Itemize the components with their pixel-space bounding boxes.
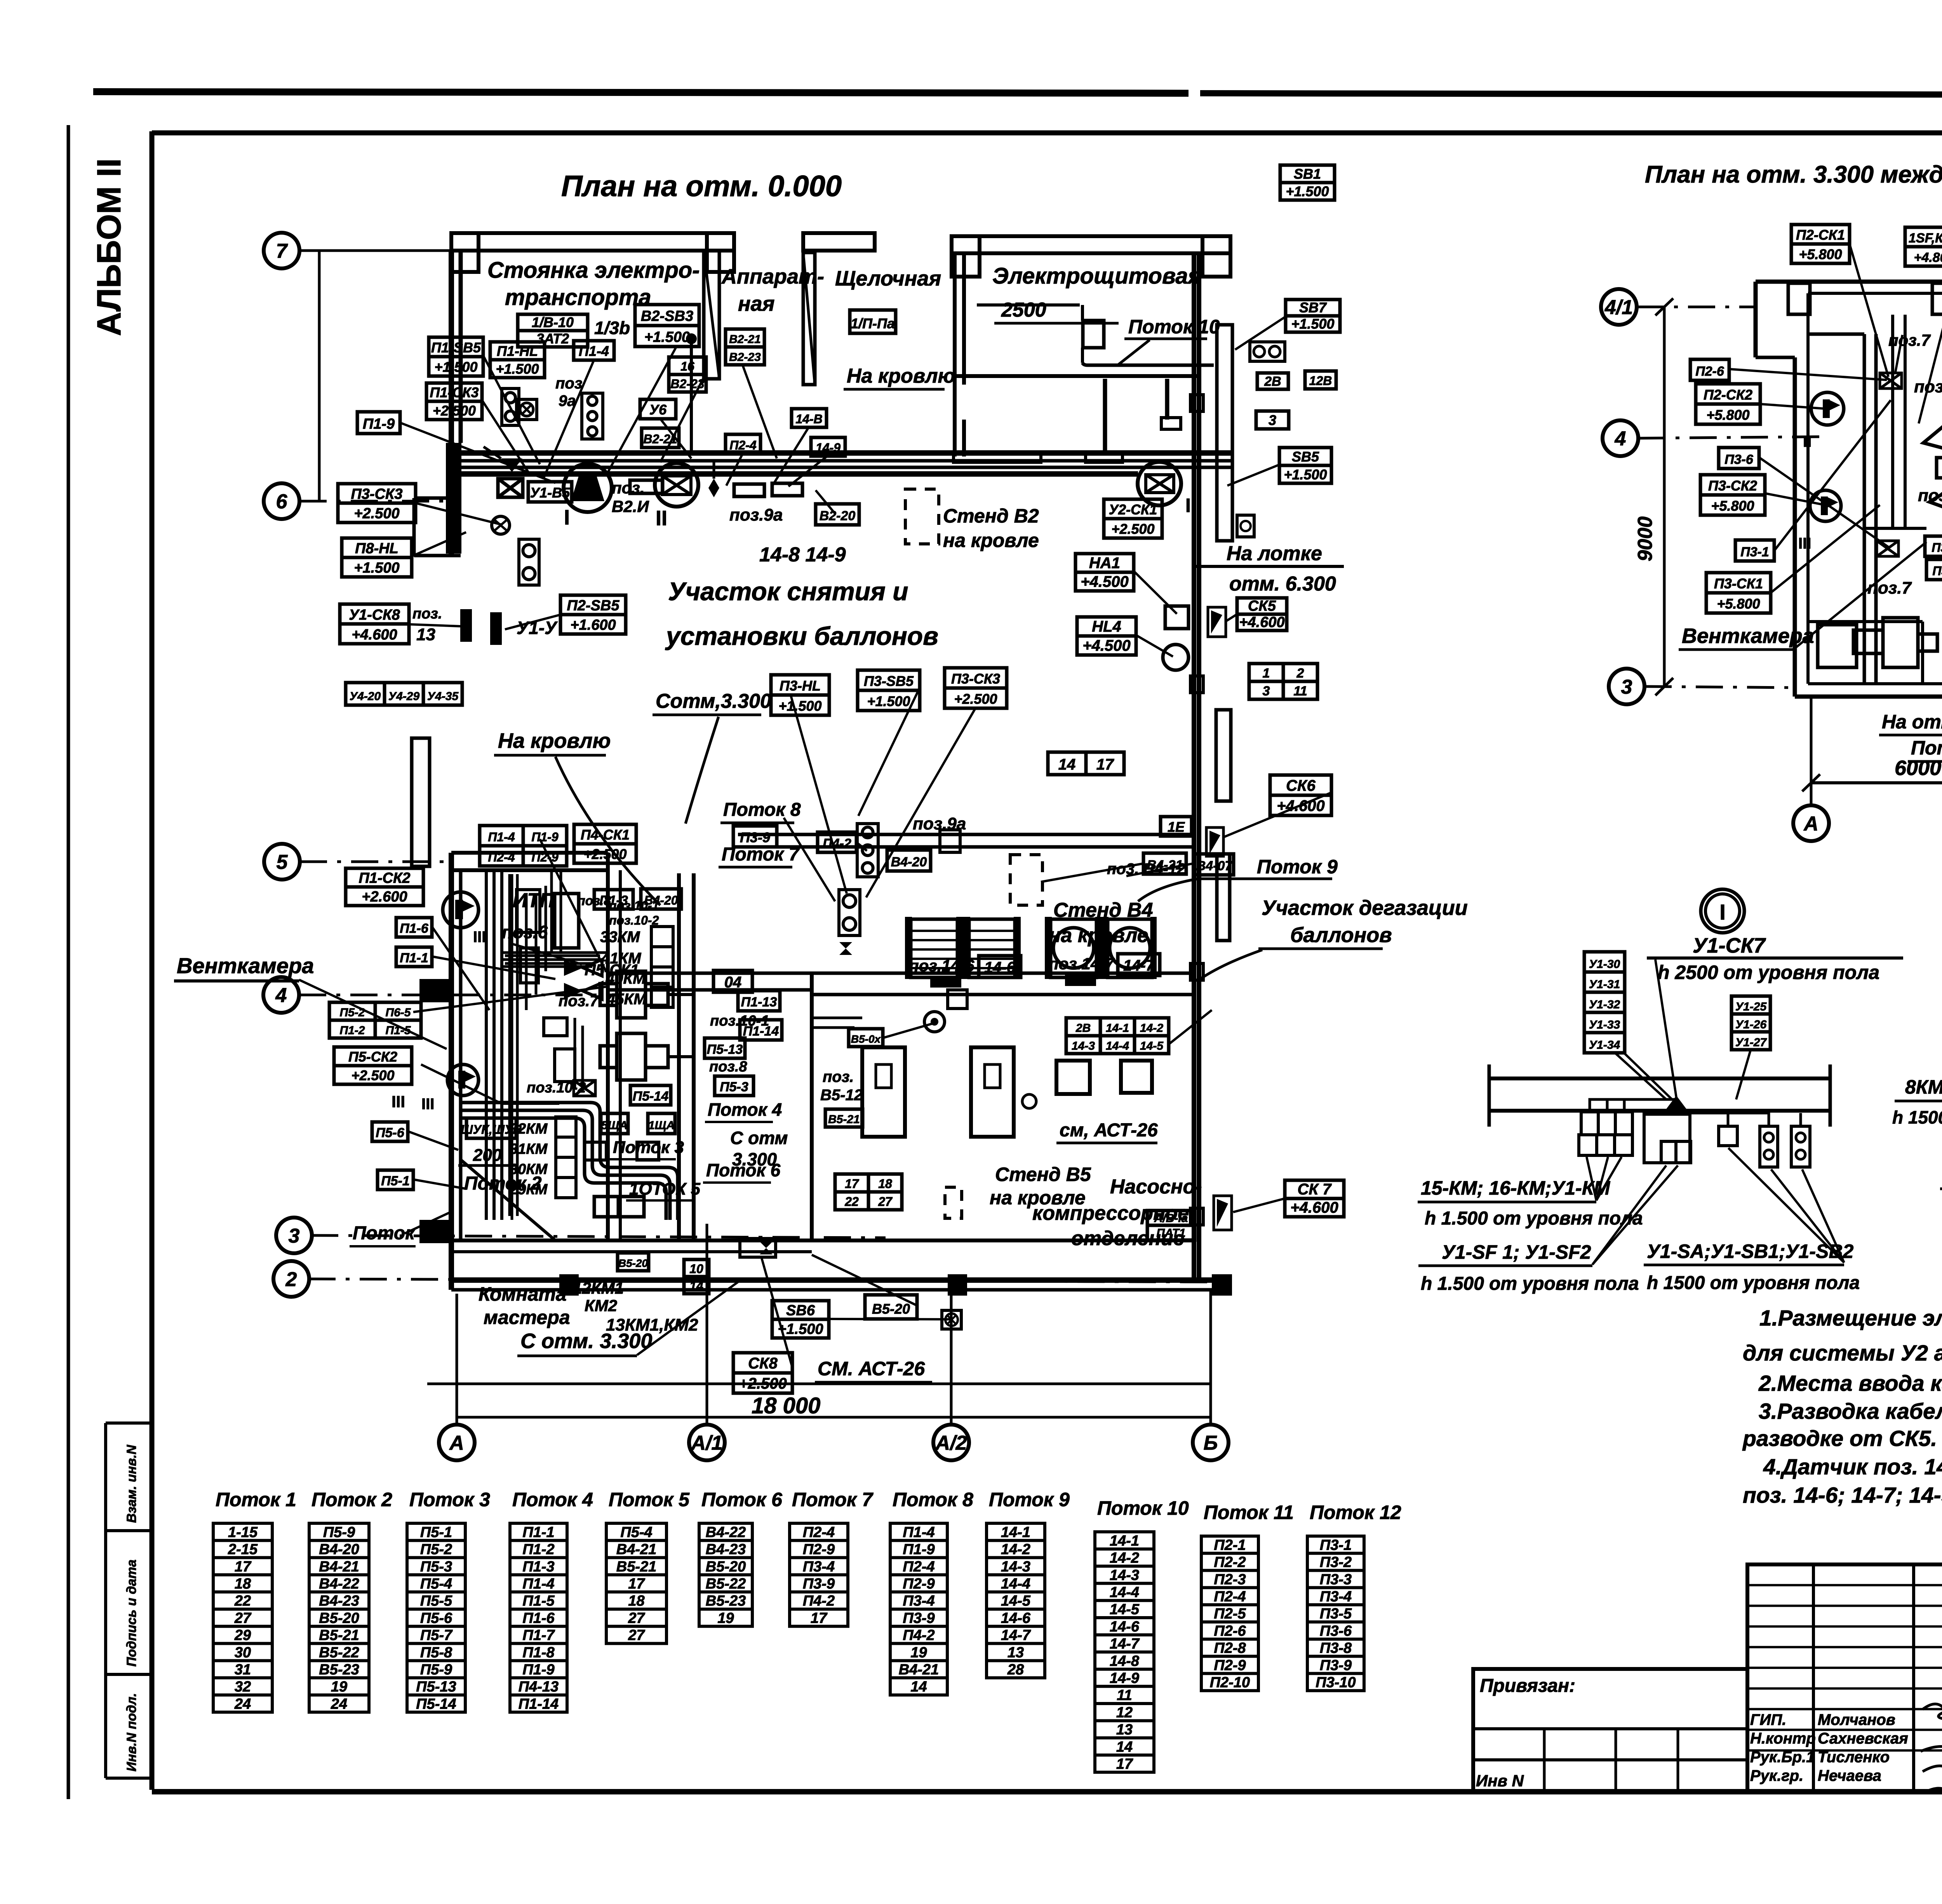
svg-text:П3-1: П3-1 <box>1320 1537 1352 1553</box>
svg-text:2500: 2500 <box>1001 299 1046 321</box>
label table П1-4 П1-9 П2-4 П2-9 <box>480 826 567 866</box>
text С отм.3.300 <box>653 690 771 824</box>
svg-text:Стенд В2: Стенд В2 <box>943 505 1039 527</box>
svg-text:В2-20: В2-20 <box>820 509 856 523</box>
svg-text:см, АСТ-26: см, АСТ-26 <box>1060 1120 1158 1141</box>
svg-text:13: 13 <box>1116 1722 1133 1738</box>
svg-text:30: 30 <box>235 1644 251 1661</box>
label box П2-СК1 +5.800 <box>1791 225 1850 263</box>
label box П3-9 <box>733 826 777 847</box>
axis circle 6 <box>264 483 299 519</box>
text см АСТ-26 mid <box>1056 1120 1158 1143</box>
dimension line 18000 lower <box>457 1416 1211 1419</box>
svg-text:I: I <box>1185 495 1191 516</box>
svg-text:П1-9: П1-9 <box>903 1542 934 1558</box>
svg-text:СК5: СК5 <box>1248 598 1276 614</box>
label box СК7 +4.600 <box>1285 1180 1344 1217</box>
svg-text:П5-9: П5-9 <box>323 1524 355 1540</box>
cable line in Электрощитовая <box>977 305 1214 365</box>
flow table Поток 10 <box>1095 1532 1154 1772</box>
svg-text:22: 22 <box>844 1195 859 1209</box>
svg-text:16: 16 <box>680 359 694 373</box>
detail I label stack У1-25..27 <box>1731 996 1770 1050</box>
svg-text:I: I <box>1719 900 1726 924</box>
svg-text:У1-34: У1-34 <box>1589 1039 1620 1052</box>
label box 14-9 <box>811 437 845 456</box>
svg-text:П5-9: П5-9 <box>420 1662 452 1678</box>
svg-text:Аппарат-: Аппарат- <box>721 265 824 288</box>
junction circle on wall right <box>1138 462 1181 505</box>
svg-text:СК8: СК8 <box>748 1355 778 1372</box>
label box SВ5 +1.500 <box>1279 448 1331 483</box>
flow table Поток 2 <box>309 1523 369 1712</box>
svg-text:П1-6: П1-6 <box>522 1610 555 1626</box>
svg-text:Поток 2: Поток 2 <box>311 1489 392 1510</box>
svg-text:+2.500: +2.500 <box>1111 521 1154 537</box>
svg-text:П2-6: П2-6 <box>1695 364 1724 379</box>
vertical dimension line 9000 <box>1655 298 1673 695</box>
svg-text:+1.500: +1.500 <box>778 698 821 714</box>
svg-text:П2-9: П2-9 <box>1214 1657 1246 1674</box>
svg-text:На лотке: На лотке <box>1227 542 1322 565</box>
svg-text:Взам. инв.N: Взам. инв.N <box>124 1444 139 1523</box>
svg-text:29: 29 <box>234 1627 251 1644</box>
svg-text:поз.14-6: поз.14-6 <box>909 956 974 975</box>
text 12КМ1 КМ2 <box>573 1279 624 1315</box>
text Участок дегазации баллонов <box>1200 896 1468 979</box>
traffic light symbol top2 <box>582 393 603 439</box>
detail I label stack У1-30..34 <box>1584 952 1625 1053</box>
svg-text:поз.7: поз.7 <box>559 993 599 1010</box>
svg-text:Поток 10: Поток 10 <box>1097 1497 1189 1519</box>
svg-text:П1-14: П1-14 <box>519 1696 559 1712</box>
fan circle unit 1 <box>1045 917 1102 979</box>
flow table Поток 5 <box>606 1523 666 1644</box>
svg-text:Поток 5: Поток 5 <box>609 1489 690 1510</box>
svg-text:12В: 12В <box>1309 374 1332 388</box>
envelope symbol right plan 2 <box>1877 541 1898 556</box>
building right wall <box>1194 253 1199 1282</box>
flag circle symbol III right plan <box>1810 490 1841 521</box>
svg-text:С отм. 3.300: С отм. 3.300 <box>520 1329 652 1353</box>
svg-text:24: 24 <box>234 1696 251 1712</box>
label box П3-SВ5 +1.500 <box>858 670 920 711</box>
svg-text:У4-35: У4-35 <box>427 690 459 703</box>
fan circle unit 2 <box>1102 917 1157 979</box>
label box 1/П-Па <box>850 310 896 333</box>
svg-text:11: 11 <box>1117 1687 1132 1704</box>
svg-text:Поток 2: Поток 2 <box>464 1173 542 1194</box>
svg-text:14-4: 14-4 <box>1106 1040 1129 1052</box>
ИТП pipe lines <box>502 870 608 967</box>
svg-text:11: 11 <box>1293 684 1307 699</box>
cable tray box 2 <box>734 484 764 496</box>
building outer walls right plan <box>1756 282 1942 697</box>
svg-text:П5-6: П5-6 <box>420 1610 452 1626</box>
svg-text:Комната: Комната <box>479 1283 567 1305</box>
axis drop line А/2 <box>950 1294 953 1424</box>
signature squiggles <box>1921 1704 1942 1798</box>
axis circle 4/1 <box>1601 289 1637 325</box>
svg-text:27: 27 <box>234 1610 252 1626</box>
label box П3-5 <box>1926 559 1942 580</box>
text Поток 7 <box>719 844 800 867</box>
svg-text:+2.500: +2.500 <box>583 846 626 862</box>
svg-text:Поток 9: Поток 9 <box>989 1489 1070 1510</box>
svg-text:П2-9: П2-9 <box>531 850 558 864</box>
svg-text:18: 18 <box>878 1177 892 1191</box>
column T in Электрощитовая 1 <box>1086 379 1122 462</box>
svg-text:13: 13 <box>416 625 435 644</box>
svg-text:У6: У6 <box>649 402 667 418</box>
svg-text:П4-2: П4-2 <box>803 1593 835 1609</box>
svg-text:Инв.N подл.: Инв.N подл. <box>124 1693 139 1772</box>
svg-text:В5-20: В5-20 <box>706 1559 746 1575</box>
label box П2-4 <box>726 434 760 454</box>
svg-text:на кровле: на кровле <box>1049 924 1148 947</box>
valve bowtie 2 <box>564 983 602 999</box>
label box П5-1 <box>378 1170 413 1190</box>
svg-text:У1-В5: У1-В5 <box>530 485 570 501</box>
svg-text:+4.600: +4.600 <box>1239 614 1284 631</box>
axis circle А right plan <box>1793 805 1829 841</box>
svg-text:12: 12 <box>1116 1704 1133 1721</box>
svg-text:П4-13: П4-13 <box>519 1679 559 1695</box>
flow table Поток 11 <box>1201 1536 1258 1691</box>
svg-text:ПАТ1: ПАТ1 <box>1156 1227 1185 1240</box>
svg-text:33КМ: 33КМ <box>600 928 640 946</box>
wall between Щелочная and Электрощитовая <box>955 253 964 456</box>
svg-text:3: 3 <box>1263 684 1270 699</box>
svg-text:Нечаева: Нечаева <box>1818 1767 1881 1784</box>
axis 4 line right plan <box>1638 437 1825 438</box>
svg-text:П2-3: П2-3 <box>1214 1571 1246 1588</box>
valve bowtie 1 <box>564 960 602 976</box>
svg-text:14-9: 14-9 <box>1110 1670 1139 1686</box>
text На кровлю mid <box>494 729 660 905</box>
svg-text:14-3: 14-3 <box>1072 1040 1095 1052</box>
svg-text:разводке от СК5.: разводке от СК5. <box>1742 1426 1937 1451</box>
interior wall x2090 <box>810 973 814 1241</box>
svg-text:4/1: 4/1 <box>1604 296 1633 319</box>
svg-text:П2-1: П2-1 <box>1214 1537 1246 1553</box>
svg-text:П5-14: П5-14 <box>416 1696 456 1712</box>
svg-text:В5-21: В5-21 <box>319 1627 359 1644</box>
svg-text:П3-4: П3-4 <box>803 1559 835 1575</box>
svg-text:Электрощитовая: Электрощитовая <box>992 263 1201 289</box>
svg-text:АЛЬБОМ II: АЛЬБОМ II <box>90 159 128 336</box>
svg-text:14-6: 14-6 <box>1110 1618 1140 1635</box>
svg-text:В4-21: В4-21 <box>899 1662 939 1678</box>
svg-text:П1-4: П1-4 <box>579 343 609 359</box>
svg-text:+2.500: +2.500 <box>351 1067 394 1083</box>
text Венткамера left <box>174 953 447 1049</box>
svg-text:+1.500: +1.500 <box>354 560 399 576</box>
label box СК6 +4.600 <box>1270 775 1331 815</box>
label box У1-В5 <box>528 482 572 502</box>
svg-text:4.Датчик поз. 14-В установит: 4.Датчик поз. 14-В установить на стене н… <box>1763 1455 1942 1479</box>
text С отм. 3.300 bottom <box>517 1282 738 1356</box>
svg-text:П1-9: П1-9 <box>363 416 395 432</box>
label box 5ЩА dark <box>601 1113 628 1134</box>
svg-text:В5-0х: В5-0х <box>851 1033 881 1045</box>
svg-text:14-1: 14-1 <box>1001 1524 1030 1540</box>
bottom wall bowtie symbol <box>740 1239 776 1257</box>
svg-text:17: 17 <box>628 1576 645 1592</box>
ИТП machinery vertical tank <box>555 894 579 948</box>
label box В5-20 dark bottom <box>618 1253 649 1271</box>
svg-text:В4-22: В4-22 <box>706 1524 746 1540</box>
label box П1-SВ5 +1.500 <box>429 337 483 376</box>
circle cross symbol left wall <box>492 516 510 534</box>
svg-text:+5.800: +5.800 <box>1799 246 1842 262</box>
svg-text:П5-1: П5-1 <box>381 1174 410 1188</box>
svg-text:Венткамера: Венткамера <box>1682 624 1814 648</box>
flag circle symbol II right plan <box>1811 392 1844 425</box>
device НА1 rect <box>1165 606 1189 629</box>
svg-text:А/2: А/2 <box>935 1432 967 1455</box>
detail II caption 8КМ 9КМ <box>1892 1076 1942 1140</box>
svg-text:отм. 6.300: отм. 6.300 <box>1229 573 1336 595</box>
svg-text:+2.500: +2.500 <box>739 1375 787 1392</box>
svg-text:1: 1 <box>1263 666 1270 681</box>
svg-text:установки баллонов: установки баллонов <box>665 622 938 650</box>
text поз.8 и поз.10-1 10-2 <box>577 894 659 927</box>
label box 2В <box>1257 373 1288 389</box>
svg-text:ная: ная <box>738 292 774 315</box>
ШУК ШУВ cabinet <box>458 1118 522 1165</box>
envelope symbol ИТП <box>574 1080 595 1096</box>
right riser channel middle <box>1216 710 1231 801</box>
text Поток 9 <box>1138 856 1338 901</box>
svg-text:Поток 6: Поток 6 <box>1911 737 1942 759</box>
svg-text:2В: 2В <box>1264 374 1281 389</box>
svg-text:+1.600: +1.600 <box>570 617 616 633</box>
svg-text:Поток 12: Поток 12 <box>1310 1502 1401 1523</box>
wall right of Стоянка <box>704 251 719 379</box>
svg-text:Стенд В4: Стенд В4 <box>1053 899 1153 922</box>
label box 1В right plan <box>1937 458 1942 478</box>
П3-9 wall bowtie <box>827 942 852 955</box>
svg-text:П1-6: П1-6 <box>400 921 429 936</box>
svg-text:2: 2 <box>1296 666 1304 681</box>
building bottom wall <box>451 1280 1232 1290</box>
svg-text:П3-HL: П3-HL <box>780 678 821 694</box>
svg-text:П3-5: П3-5 <box>1320 1606 1352 1622</box>
label box П3-СК3 +2.500 <box>945 668 1007 708</box>
svg-text:Поток 7: Поток 7 <box>722 844 800 865</box>
svg-text:I: I <box>564 506 570 529</box>
text Стенд В5 на кровле <box>990 1164 1091 1209</box>
label box П1-СК3 +2.500 <box>426 383 482 420</box>
Насосная greeking <box>812 1018 1036 1108</box>
svg-text:В4-21: В4-21 <box>616 1542 657 1558</box>
dot circle symbol <box>924 1012 945 1032</box>
axis vertical line near 7 <box>318 251 321 501</box>
svg-text:14: 14 <box>910 1679 927 1695</box>
svg-text:П3-2: П3-2 <box>1320 1554 1352 1571</box>
detail I right small box <box>1690 1113 1737 1146</box>
label box П3-СК3 +2.500 left <box>338 484 416 523</box>
traffic light below I <box>519 539 539 585</box>
texts 32КМ 31КМ 30КМ 29КМ <box>509 1121 548 1198</box>
label strip У4-20 У4-29 У4-35 <box>346 683 462 705</box>
svg-text:14-2: 14-2 <box>1001 1542 1030 1558</box>
junction box I circle <box>564 464 612 512</box>
svg-text:П3-10: П3-10 <box>1316 1674 1356 1691</box>
svg-text:поз.: поз. <box>612 479 644 497</box>
title block centre grid <box>1747 1564 1942 1792</box>
svg-text:П3-СК3: П3-СК3 <box>951 671 1000 687</box>
text С отм 3.300 mid <box>730 1128 788 1169</box>
svg-text:П2-2: П2-2 <box>1214 1554 1246 1571</box>
svg-text:14-2: 14-2 <box>1110 1550 1139 1566</box>
boxed fan symbol bottom <box>942 1310 961 1329</box>
svg-text:ИТП: ИТП <box>513 889 555 912</box>
svg-text:Молчанов: Молчанов <box>1818 1711 1895 1728</box>
right riser channel upper <box>1217 325 1232 541</box>
svg-text:3: 3 <box>289 1225 300 1247</box>
svg-text:Н.контр: Н.контр <box>1750 1730 1816 1747</box>
svg-text:А: А <box>449 1432 464 1455</box>
svg-text:14-5: 14-5 <box>1001 1593 1031 1609</box>
text Поток 10 <box>1119 316 1220 364</box>
svg-text:9000: 9000 <box>1634 516 1657 561</box>
svg-text:Сахневская: Сахневская <box>1818 1730 1908 1747</box>
label box СК5 +4.600 <box>1237 598 1287 631</box>
svg-text:У1-32: У1-32 <box>1589 998 1620 1011</box>
svg-text:28: 28 <box>1007 1662 1024 1678</box>
right riser channel lower <box>1217 854 1230 941</box>
svg-text:В4-22: В4-22 <box>319 1576 359 1592</box>
wall at axis 5 <box>451 853 608 870</box>
hall label Участок снятия <box>665 577 938 650</box>
left wall pilaster at axis 3 <box>419 1220 451 1243</box>
vent chamber wall <box>1808 334 1876 684</box>
svg-text:Привязан:: Привязан: <box>1480 1676 1575 1696</box>
detail marker I <box>1701 889 1744 933</box>
svg-text:Поток 4: Поток 4 <box>512 1489 593 1510</box>
dashed stand В5 <box>945 1187 962 1218</box>
svg-text:+2.500: +2.500 <box>433 403 476 419</box>
svg-text:1Е: 1Е <box>1168 819 1185 835</box>
svg-text:В2-23: В2-23 <box>729 351 761 364</box>
svg-text:III: III <box>421 1096 434 1113</box>
svg-text:П5-СК2: П5-СК2 <box>348 1049 397 1064</box>
junction box II circle <box>655 463 698 507</box>
svg-text:4: 4 <box>1615 428 1626 450</box>
svg-text:3АТ2: 3АТ2 <box>536 331 569 347</box>
text поз 9а <box>555 375 582 409</box>
label box П5-6 <box>372 1122 408 1141</box>
flow table Поток 6 <box>699 1523 752 1626</box>
svg-text:+4.600: +4.600 <box>1290 1199 1338 1216</box>
svg-text:45КМ: 45КМ <box>606 991 647 1008</box>
detail II caption 20-КМ 21-КМ В2-К1К2К3 <box>1940 1158 1942 1215</box>
text Поток 4 <box>705 1099 782 1122</box>
svg-text:14: 14 <box>1116 1739 1133 1755</box>
boxed cross symbol <box>517 399 537 420</box>
trunk boxes bottom <box>594 1197 644 1217</box>
pump cross unit 2 <box>600 1033 695 1080</box>
svg-text:+1.500: +1.500 <box>644 329 690 345</box>
svg-text:+1.500: +1.500 <box>778 1321 823 1337</box>
svg-text:СК 7: СК 7 <box>1298 1181 1332 1198</box>
svg-text:Инв N: Инв N <box>1476 1772 1524 1790</box>
svg-text:1ЩА: 1ЩА <box>648 1119 675 1132</box>
top step block <box>1788 283 1942 314</box>
text На отм.0,000 bottom right plan <box>1879 711 1942 735</box>
svg-text:+5.800: +5.800 <box>1711 498 1754 514</box>
axis 3 line <box>311 1235 886 1238</box>
svg-text:h 2500 от уровня пола: h 2500 от уровня пола <box>1658 962 1879 983</box>
svg-text:В2-21: В2-21 <box>729 333 761 346</box>
sensor поз.9а diamond <box>708 461 719 497</box>
drawing frame left border <box>150 131 155 1790</box>
equipment rect tall 2 <box>971 1047 1014 1137</box>
svg-text:Б: Б <box>1204 1432 1218 1455</box>
svg-text:У1-27: У1-27 <box>1735 1036 1767 1049</box>
svg-text:14-1: 14-1 <box>1106 1022 1129 1035</box>
svg-text:поз.9а: поз.9а <box>913 814 966 833</box>
bottom left room wall <box>1808 622 1923 684</box>
svg-text:+4.600: +4.600 <box>352 627 397 643</box>
traffic light symbol top1 <box>502 388 519 425</box>
svg-text:П1-3: П1-3 <box>522 1559 554 1575</box>
svg-text:Поток 1: Поток 1 <box>216 1489 296 1510</box>
svg-text:III: III <box>473 928 486 946</box>
svg-text:П2-4: П2-4 <box>803 1524 835 1540</box>
svg-text:П1-1: П1-1 <box>522 1524 554 1540</box>
svg-text:7: 7 <box>276 240 288 263</box>
svg-text:2.Места ввода кабелей в эле: 2.Места ввода кабелей в электрощитовую у… <box>1758 1371 1942 1396</box>
svg-text:4: 4 <box>275 984 287 1007</box>
svg-text:Поток 6: Поток 6 <box>701 1489 783 1510</box>
text Венткамера right plan <box>1679 624 1814 650</box>
label box В5-0х <box>849 1029 883 1047</box>
svg-text:3.Разводка кабелей от короб: 3.Разводка кабелей от коробок СК6,СК7,СК… <box>1759 1399 1942 1424</box>
label box У6 <box>640 399 676 419</box>
svg-text:П3-6: П3-6 <box>1320 1623 1352 1639</box>
svg-text:П5-4: П5-4 <box>620 1524 652 1540</box>
flow table Поток 7 <box>790 1523 848 1626</box>
axis circle А bottom <box>439 1425 475 1460</box>
svg-text:П1-3: П1-3 <box>599 893 628 908</box>
label box 12В <box>1305 371 1336 389</box>
svg-text:П5-2: П5-2 <box>420 1542 452 1558</box>
svg-text:В4-20: В4-20 <box>644 894 678 908</box>
label box У1-СК8 +4.600 <box>340 604 409 644</box>
svg-text:14-6: 14-6 <box>1001 1610 1031 1626</box>
svg-text:17: 17 <box>845 1177 860 1191</box>
main longitudinal wall band <box>451 453 1232 474</box>
svg-text:14-3: 14-3 <box>1001 1559 1030 1575</box>
equipment square 2 <box>1121 1061 1152 1093</box>
text поз.14-7 and box 14-7 <box>1049 954 1160 986</box>
svg-text:Подпись и дата: Подпись и дата <box>124 1559 139 1667</box>
label box П3-1 <box>1735 540 1774 561</box>
wedge symbol СК7 <box>1214 1196 1232 1230</box>
svg-text:П3-4: П3-4 <box>1320 1589 1352 1605</box>
svg-text:Тисленко: Тисленко <box>1818 1749 1890 1766</box>
svg-text:П1-SВ5: П1-SВ5 <box>431 340 481 355</box>
label box П1-9 <box>357 412 400 434</box>
cable tray box 1 <box>630 480 663 493</box>
wall pilaster column outside left <box>412 738 430 866</box>
svg-text:П1-1: П1-1 <box>400 951 428 965</box>
svg-text:П2-6: П2-6 <box>1214 1623 1246 1639</box>
svg-text:План на отм. 0.000: План на отм. 0.000 <box>561 170 842 203</box>
